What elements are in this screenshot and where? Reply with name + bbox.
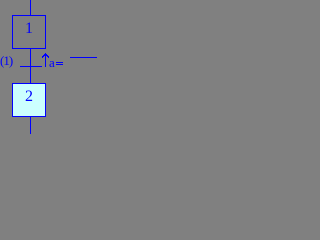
transition condition variable "a" bbox=[49, 56, 55, 69]
blank value line after equals bbox=[70, 57, 97, 58]
transition condition: rising-edge arrow bbox=[0, 0, 97, 134]
wire: vertical link between step 1 and step 2 bbox=[30, 49, 31, 83]
transition number label "(1)" bbox=[0, 54, 12, 67]
wire: vertical link from top edge into step 1 bbox=[30, 0, 31, 15]
step S2 (active step box, cyan fill) bbox=[12, 83, 46, 117]
equals sign (upper bar) bbox=[56, 62, 63, 63]
step S1 label "1" bbox=[12, 21, 46, 37]
wire: vertical link below step 2 to bottom edge bbox=[30, 117, 31, 134]
step S1 (box) bbox=[12, 15, 46, 49]
step S2 label "2" bbox=[12, 89, 46, 105]
transition T1 (horizontal bar) bbox=[20, 66, 42, 67]
equals sign (lower bar) bbox=[56, 64, 63, 65]
